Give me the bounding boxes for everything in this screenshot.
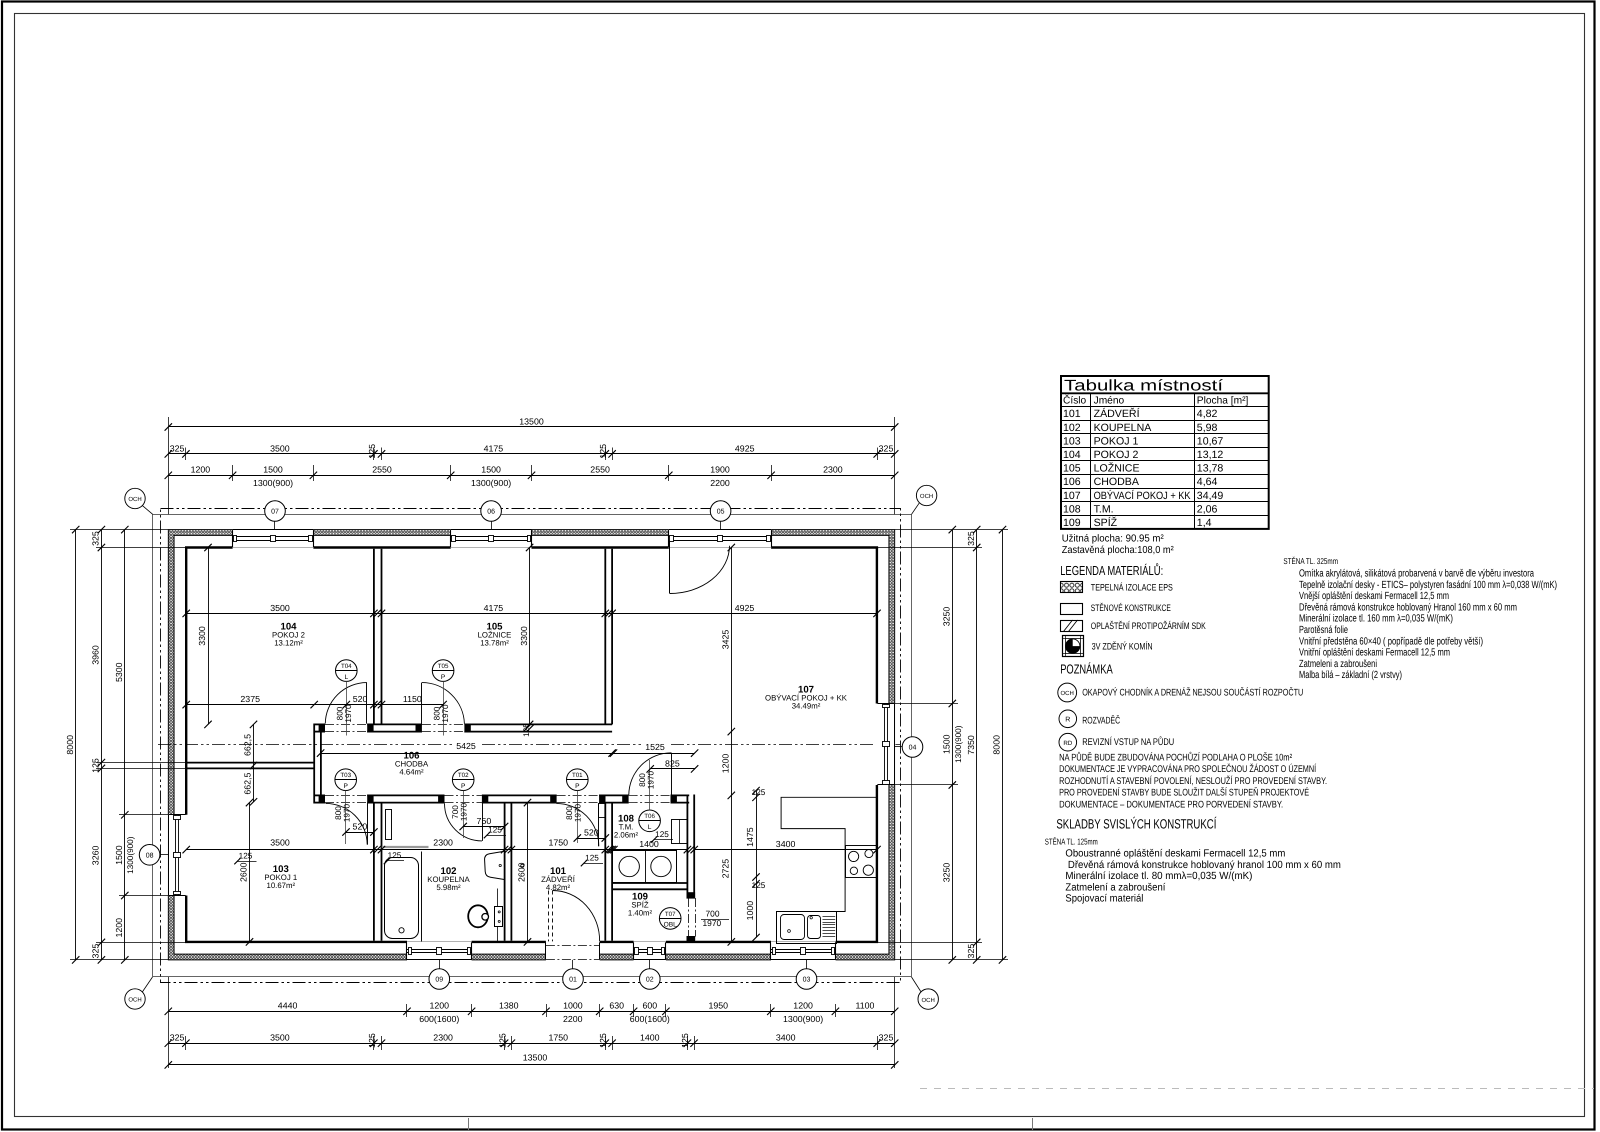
ext line right openings row [895, 703, 958, 705]
svg-text:13500: 13500 [519, 416, 544, 426]
door T02 swing [482, 803, 484, 841]
svg-text:1000: 1000 [745, 901, 755, 921]
axis node 02 [640, 969, 661, 990]
corridor top wall door jamb [464, 724, 470, 733]
svg-text:104: 104 [1063, 449, 1081, 461]
interior dim bottom rooms [186, 849, 612, 851]
svg-text:Vnitřní opláštění deskami Ferm: Vnitřní opláštění deskami Fermacell 12,5… [1299, 648, 1450, 659]
corridor top wall door jamb [319, 724, 325, 733]
door label T04 [336, 660, 358, 682]
wall between rooms 105 and 107 [604, 549, 606, 725]
svg-text:1900: 1900 [710, 465, 730, 475]
corridor bottom wall door jamb [622, 795, 628, 804]
svg-text:STĚNA TL. 325mm: STĚNA TL. 325mm [1283, 556, 1338, 566]
svg-text:Tabulka místností: Tabulka místností [1064, 378, 1224, 395]
table row line [1061, 460, 1269, 462]
svg-text:125: 125 [655, 830, 669, 839]
svg-text:2600: 2600 [517, 862, 527, 882]
dim left walls [101, 530, 103, 960]
svg-text:KOUPELNA: KOUPELNA [1094, 422, 1153, 434]
svg-text:4175: 4175 [484, 603, 504, 613]
door T06 swing (room 108) [671, 753, 673, 795]
svg-text:34.49m²: 34.49m² [792, 702, 821, 711]
window right [894, 704, 896, 786]
drainage walkway outline [153, 515, 912, 977]
svg-text:DOKUMENTACE JE VYPRACOVÁNA PRO: DOKUMENTACE JE VYPRACOVÁNA PRO SPOLEČNOU… [1059, 763, 1316, 775]
corridor bottom wall door jamb [367, 795, 373, 804]
wall east of rooms 108/109 [686, 795, 688, 899]
axis node 06 [481, 501, 502, 522]
corridor bottom wall [314, 794, 325, 796]
svg-text:1970: 1970 [441, 704, 450, 723]
wall between room 101 and 108/109 [604, 803, 606, 941]
svg-text:1100: 1100 [856, 1001, 875, 1011]
svg-text:5300: 5300 [114, 662, 124, 682]
dim 3400 kitchen [694, 849, 877, 851]
shower screen bar [382, 846, 429, 848]
svg-text:1525: 1525 [645, 742, 665, 752]
svg-text:Tepelně izolační desky - ETICS: Tepelně izolační desky - ETICS– polystyr… [1299, 580, 1557, 591]
ext line left walls row [96, 762, 186, 764]
svg-text:OBÝVACÍ POKOJ + KK: OBÝVACÍ POKOJ + KK [1094, 489, 1191, 502]
OCH marker bottom-right [918, 989, 938, 1009]
table title separator [1061, 392, 1269, 394]
axis node 01 [563, 969, 584, 990]
svg-text:13.12m²: 13.12m² [274, 639, 303, 648]
ext line bottom openings row [835, 1004, 837, 1017]
table row line [1061, 474, 1269, 476]
svg-text:125: 125 [488, 826, 502, 835]
svg-text:STĚNA TL. 125mm: STĚNA TL. 125mm [1045, 836, 1098, 846]
table row line [1061, 433, 1269, 435]
svg-text:125: 125 [752, 788, 766, 797]
svg-text:520: 520 [353, 694, 368, 704]
svg-text:OPLAŠTĚNÍ PROTIPOŽÁRNÍM SDK: OPLAŠTĚNÍ PROTIPOŽÁRNÍM SDK [1091, 620, 1207, 631]
door opening axis dashes bottom [557, 795, 600, 797]
svg-text:1300(900): 1300(900) [783, 1014, 823, 1024]
svg-text:ZÁDVEŘÍ: ZÁDVEŘÍ [1094, 407, 1140, 420]
wall between rooms 102 and 101 [504, 803, 506, 941]
svg-text:10,67: 10,67 [1197, 435, 1224, 447]
ext line bottom openings row [665, 1004, 667, 1017]
ext line right openings row [895, 784, 958, 786]
bathroom radiator [386, 810, 392, 840]
svg-text:630: 630 [609, 1001, 624, 1011]
svg-text:600(1600): 600(1600) [630, 1014, 670, 1024]
dim 1525 text [641, 743, 669, 752]
svg-text:P: P [343, 783, 348, 790]
svg-text:POKOJ 2: POKOJ 2 [1094, 449, 1139, 461]
ext line left openings row [119, 814, 168, 816]
washbasin [485, 851, 505, 879]
corridor bottom wall door jamb [319, 795, 325, 804]
bottom window 2 gap [634, 941, 666, 961]
axis node 08 [139, 845, 160, 866]
svg-text:Zatmelení a zabroušení: Zatmelení a zabroušení [1065, 882, 1165, 893]
svg-text:1400: 1400 [640, 1033, 660, 1043]
ext line bottom walls row [694, 1036, 696, 1050]
svg-text:4925: 4925 [735, 603, 755, 613]
ext line top walls row [605, 448, 607, 461]
svg-text:5.98m²: 5.98m² [436, 883, 461, 892]
svg-text:34,49: 34,49 [1197, 490, 1224, 502]
svg-text:Užitná plocha: 90.95 m²: Užitná plocha: 90.95 m² [1062, 533, 1165, 544]
inner wall face bottom [185, 941, 407, 943]
corridor bottom wall door jamb [550, 795, 556, 804]
svg-text:1000: 1000 [563, 1001, 583, 1011]
OCH marker top-right [916, 485, 936, 505]
door opening axis dashes top [422, 724, 465, 726]
window top-left [233, 529, 314, 531]
svg-text:ROZHODNUTÍ A STAVEBNÍ POVOLENÍ: ROZHODNUTÍ A STAVEBNÍ POVOLENÍ, NESLOUŽÍ… [1059, 775, 1327, 787]
svg-text:1200: 1200 [721, 754, 731, 774]
svg-text:DOKUMENTACE – DOKUMENTACE PRO: DOKUMENTACE – DOKUMENTACE PRO PORVEDENÍ … [1059, 798, 1283, 810]
svg-text:325: 325 [966, 944, 976, 959]
svg-text:Dřevěná rámová konstrukce hobl: Dřevěná rámová konstrukce hoblovaný Hran… [1299, 602, 1517, 613]
svg-text:T04: T04 [341, 663, 352, 670]
svg-text:1380: 1380 [499, 1001, 519, 1011]
inner wall face left [185, 548, 187, 815]
door opening axis dashes bottom [629, 795, 671, 797]
svg-text:1.40m²: 1.40m² [628, 909, 653, 918]
left window gap [168, 815, 188, 896]
svg-text:325: 325 [91, 944, 101, 959]
dim 825 [650, 768, 694, 770]
axis node 09 [429, 969, 450, 990]
svg-text:T05: T05 [438, 663, 449, 670]
svg-text:106: 106 [1063, 476, 1081, 488]
svg-text:1970: 1970 [342, 803, 351, 822]
door T03 swing [367, 803, 369, 844]
ext line top walls row [373, 448, 375, 461]
svg-text:R: R [1065, 717, 1070, 724]
svg-text:1500: 1500 [114, 845, 124, 865]
svg-text:13,12: 13,12 [1197, 449, 1224, 461]
svg-text:1950: 1950 [709, 1001, 729, 1011]
entrance door gap [546, 941, 600, 961]
svg-text:125: 125 [239, 852, 253, 861]
svg-text:125: 125 [598, 1033, 608, 1048]
svg-text:P: P [461, 783, 466, 790]
svg-text:101: 101 [1063, 408, 1081, 420]
floor drain zadveri [521, 864, 524, 867]
svg-text:4,82: 4,82 [1197, 408, 1218, 420]
svg-text:2550: 2550 [590, 465, 610, 475]
svg-text:Parotěsná folie: Parotěsná folie [1299, 625, 1348, 636]
svg-text:04: 04 [909, 745, 917, 752]
ext line top openings row [531, 465, 533, 481]
entrance door [548, 891, 550, 942]
svg-text:2.06m²: 2.06m² [614, 831, 639, 840]
table row line [1061, 515, 1269, 517]
svg-text:T01: T01 [572, 772, 583, 779]
dim top walls [168, 453, 894, 455]
ext line top walls row [381, 448, 383, 461]
ext line top walls row [185, 448, 187, 461]
svg-text:Jméno: Jméno [1094, 395, 1125, 406]
ext line bottom walls row [185, 1036, 187, 1050]
top corner extension lines [168, 417, 170, 514]
spiz door dashed leaf [688, 898, 690, 937]
svg-text:P: P [441, 674, 446, 681]
corridor bottom wall door jamb [438, 795, 444, 804]
dim left openings [124, 530, 126, 960]
ext line top openings row [313, 465, 315, 481]
ext line bottom openings row [406, 1004, 408, 1017]
interior dim room 104 row [186, 704, 443, 706]
svg-text:520: 520 [584, 827, 599, 837]
svg-text:Minerální izolace tl. 80 mmλ=0: Minerální izolace tl. 80 mmλ=0,035 W/(mK… [1065, 871, 1252, 882]
svg-text:OCH: OCH [128, 496, 141, 503]
svg-text:Číslo: Číslo [1063, 394, 1087, 406]
svg-text:13500: 13500 [523, 1052, 548, 1062]
svg-text:109: 109 [1063, 517, 1081, 529]
axis node 05 [710, 501, 731, 522]
svg-text:03: 03 [803, 977, 811, 984]
door T01 swing [598, 803, 600, 846]
door label T05 [432, 660, 454, 682]
toilet [497, 889, 499, 942]
svg-text:PRO PROVEDENÍ STAVBY BUDE SLOU: PRO PROVEDENÍ STAVBY BUDE SLOUŽIT DALŠÍ … [1059, 787, 1309, 799]
ext line top openings row [232, 465, 234, 481]
fold mark dashed line [920, 1088, 1594, 1090]
dim 1400 room 108 [611, 849, 688, 851]
svg-text:POKOJ 1: POKOJ 1 [1094, 435, 1139, 447]
table header separator [1061, 406, 1269, 408]
corridor bottom wall door jamb [599, 795, 605, 804]
svg-text:2300: 2300 [433, 837, 453, 847]
svg-text:3500: 3500 [270, 837, 290, 847]
wall between rooms 104 and 105 [373, 549, 375, 725]
svg-text:OCH: OCH [128, 997, 141, 1004]
svg-text:520: 520 [353, 821, 368, 831]
ext line left walls row [96, 547, 186, 549]
top window 1 gap [233, 529, 314, 549]
ext line top walls row [612, 448, 614, 461]
svg-text:750: 750 [477, 816, 492, 826]
svg-text:2300: 2300 [433, 1033, 453, 1043]
svg-text:3250: 3250 [942, 863, 952, 883]
door opening axis dashes top [325, 724, 367, 726]
svg-text:4,64: 4,64 [1197, 476, 1218, 488]
dim room 101 height [527, 803, 529, 942]
door T04 swing [366, 683, 368, 724]
ext line top openings row [771, 465, 773, 481]
svg-text:3V ZDĚNÝ KOMÍN: 3V ZDĚNÝ KOMÍN [1092, 640, 1153, 651]
right corner extension lines [895, 529, 1008, 531]
dim right 8000 [1002, 530, 1004, 960]
bottom corner extension lines [168, 977, 170, 1068]
svg-text:08: 08 [146, 852, 154, 859]
svg-text:OCH: OCH [920, 493, 933, 500]
svg-text:13,78: 13,78 [1197, 463, 1224, 475]
ext line bottom openings row [770, 1004, 772, 1017]
svg-text:1200: 1200 [114, 918, 124, 938]
note OCH symbol [1058, 683, 1077, 702]
svg-text:4.82m²: 4.82m² [546, 883, 571, 892]
svg-text:2200: 2200 [563, 1014, 583, 1024]
svg-text:TEPELNÁ IZOLACE EPS: TEPELNÁ IZOLACE EPS [1091, 582, 1173, 593]
svg-text:108: 108 [1063, 503, 1081, 515]
dim room 105 height [529, 548, 531, 725]
svg-text:RD: RD [1063, 740, 1072, 747]
table row line [1061, 420, 1269, 422]
svg-text:125: 125 [497, 1033, 507, 1048]
dim top 13500 [168, 426, 894, 428]
wall between rooms 103 and 102 [373, 803, 375, 941]
terrace door gap [669, 529, 771, 549]
svg-text:107: 107 [1063, 490, 1081, 502]
dim 750 washbasin [463, 826, 504, 828]
corridor top wall door jamb [367, 724, 373, 733]
svg-text:125: 125 [367, 444, 377, 459]
exterior wall insulation hatch band [168, 530, 894, 960]
dim left 8000 [75, 530, 77, 960]
svg-text:1475: 1475 [745, 827, 755, 847]
svg-text:3400: 3400 [776, 839, 796, 849]
ext line bottom openings row [599, 1004, 601, 1017]
svg-text:4925: 4925 [735, 443, 755, 453]
kitchen sink unit [777, 912, 837, 944]
svg-text:Plocha [m²]: Plocha [m²] [1197, 395, 1249, 406]
ext line bottom openings row [471, 1004, 473, 1017]
top window 2 gap [451, 529, 532, 549]
svg-text:ROZVADĚČ: ROZVADĚČ [1082, 714, 1120, 726]
svg-text:2200: 2200 [710, 478, 730, 488]
svg-text:OBL: OBL [664, 922, 678, 929]
ext line bottom walls row [511, 1036, 513, 1050]
door opening axis dashes bottom [325, 795, 367, 797]
axis node 07 [265, 501, 286, 522]
svg-text:1300(900): 1300(900) [954, 725, 963, 763]
note RD symbol [1059, 733, 1077, 751]
svg-text:125: 125 [752, 881, 766, 890]
svg-text:125: 125 [585, 854, 599, 863]
dim 1525 line [612, 753, 695, 755]
stove with burners [846, 846, 877, 878]
OCH marker top-left [125, 488, 145, 508]
svg-text:4175: 4175 [484, 443, 504, 453]
ext line bottom walls row [373, 1036, 375, 1050]
ext line right walls row [877, 942, 982, 944]
svg-text:102: 102 [1063, 422, 1081, 434]
svg-text:3300: 3300 [519, 626, 529, 646]
legend symbol SDK cladding [1061, 621, 1083, 632]
washing machines [613, 851, 677, 883]
roof overhang outline [161, 509, 901, 983]
svg-text:OCH: OCH [1061, 690, 1074, 697]
svg-text:STĚNOVÉ KONSTRUKCE: STĚNOVÉ KONSTRUKCE [1091, 602, 1171, 613]
svg-text:600: 600 [642, 1001, 657, 1011]
svg-text:LOŽNICE: LOŽNICE [1094, 462, 1140, 475]
svg-text:3500: 3500 [270, 603, 290, 613]
svg-text:1300(900): 1300(900) [253, 478, 293, 488]
dim top openings [168, 475, 894, 477]
ext line left walls row [96, 942, 186, 944]
ext line bottom walls row [504, 1036, 506, 1050]
svg-text:T06: T06 [644, 813, 655, 820]
dim 520 door T01 [577, 838, 605, 840]
svg-text:L: L [648, 824, 652, 831]
svg-text:CHODBA: CHODBA [1094, 476, 1140, 488]
corridor bottom wall door jamb [671, 795, 677, 804]
legend symbol chimney [1063, 636, 1084, 657]
svg-text:SPÍŽ: SPÍŽ [1094, 516, 1118, 529]
svg-text:5425: 5425 [456, 741, 476, 751]
svg-text:T.M.: T.M. [1094, 503, 1114, 515]
note R symbol [1059, 710, 1077, 728]
svg-text:Dřevěná rámová konstrukce hobl: Dřevěná rámová konstrukce hoblovaný hran… [1068, 860, 1341, 871]
bottom window 1 gap [407, 941, 472, 961]
svg-text:700: 700 [706, 909, 720, 919]
svg-text:OKAPOVÝ CHODNÍK A DRENÁŽ NEJSO: OKAPOVÝ CHODNÍK A DRENÁŽ NEJSOU SOUČÁSTÍ… [1082, 686, 1303, 698]
corridor west end wall [313, 724, 315, 804]
svg-text:3250: 3250 [942, 607, 952, 627]
svg-text:8000: 8000 [65, 735, 75, 755]
svg-text:2,06: 2,06 [1197, 503, 1218, 515]
axis node 04 [902, 737, 923, 758]
OCH marker bottom-left [125, 989, 145, 1009]
svg-text:1200: 1200 [430, 1001, 450, 1011]
svg-text:7350: 7350 [966, 735, 976, 755]
dim bottom openings [168, 1011, 894, 1013]
svg-text:1150: 1150 [403, 694, 422, 704]
svg-text:Minerální izolace tl. 160 mm λ: Minerální izolace tl. 160 mm λ=0,035 W/(… [1299, 614, 1453, 625]
svg-text:5,98: 5,98 [1197, 422, 1218, 434]
door T05 swing [421, 683, 423, 724]
svg-text:SKLADBY SVISLÝCH KONSTRUKCÍ: SKLADBY SVISLÝCH KONSTRUKCÍ [1056, 817, 1216, 832]
svg-text:06: 06 [487, 509, 495, 516]
wall between rooms 108 and 109 [612, 882, 687, 884]
window bottom spiz [634, 959, 666, 961]
dim kitchen column [756, 791, 758, 938]
corridor length text [452, 742, 480, 751]
door label T01 [567, 769, 589, 791]
door label T06 [639, 810, 661, 832]
svg-text:01: 01 [569, 977, 577, 984]
svg-text:09: 09 [435, 977, 443, 984]
svg-text:662,5: 662,5 [243, 772, 253, 794]
svg-text:1500: 1500 [481, 465, 501, 475]
svg-text:2600: 2600 [239, 862, 249, 882]
svg-text:05: 05 [717, 509, 725, 516]
right window gap [876, 704, 896, 786]
window top-middle [451, 529, 532, 531]
dim room 103 height [249, 803, 251, 942]
svg-text:1400: 1400 [639, 839, 659, 849]
dim bottom 13500 line [168, 1064, 894, 1066]
svg-text:P: P [575, 783, 580, 790]
fold tick b [1032, 1118, 1034, 1130]
dim living room heights [731, 548, 733, 942]
svg-text:POZNÁMKA: POZNÁMKA [1060, 662, 1113, 677]
svg-text:13.78m²: 13.78m² [480, 639, 509, 648]
corridor bottom wall door jamb [482, 795, 488, 804]
svg-text:1,4: 1,4 [1197, 517, 1212, 529]
svg-text:Malba bílá – základní (2 vrstv: Malba bílá – základní (2 vrstvy) [1299, 670, 1402, 681]
svg-text:Oboustranné opláštění deskami: Oboustranné opláštění deskami Fermacell … [1065, 849, 1285, 860]
svg-text:L: L [344, 674, 348, 681]
svg-text:Omítka akrylátová, silikátová: Omítka akrylátová, silikátová probarvená… [1299, 569, 1534, 580]
svg-text:REVIZNÍ VSTUP NA PŮDU: REVIZNÍ VSTUP NA PŮDU [1082, 736, 1174, 748]
legend symbol EPS insulation [1061, 582, 1083, 593]
svg-text:1200: 1200 [793, 1001, 813, 1011]
svg-text:1750: 1750 [549, 1033, 569, 1043]
dim right openings [952, 530, 954, 960]
svg-text:3500: 3500 [270, 443, 290, 453]
interior dim rooms width [186, 613, 877, 615]
door label T02 [452, 769, 474, 791]
